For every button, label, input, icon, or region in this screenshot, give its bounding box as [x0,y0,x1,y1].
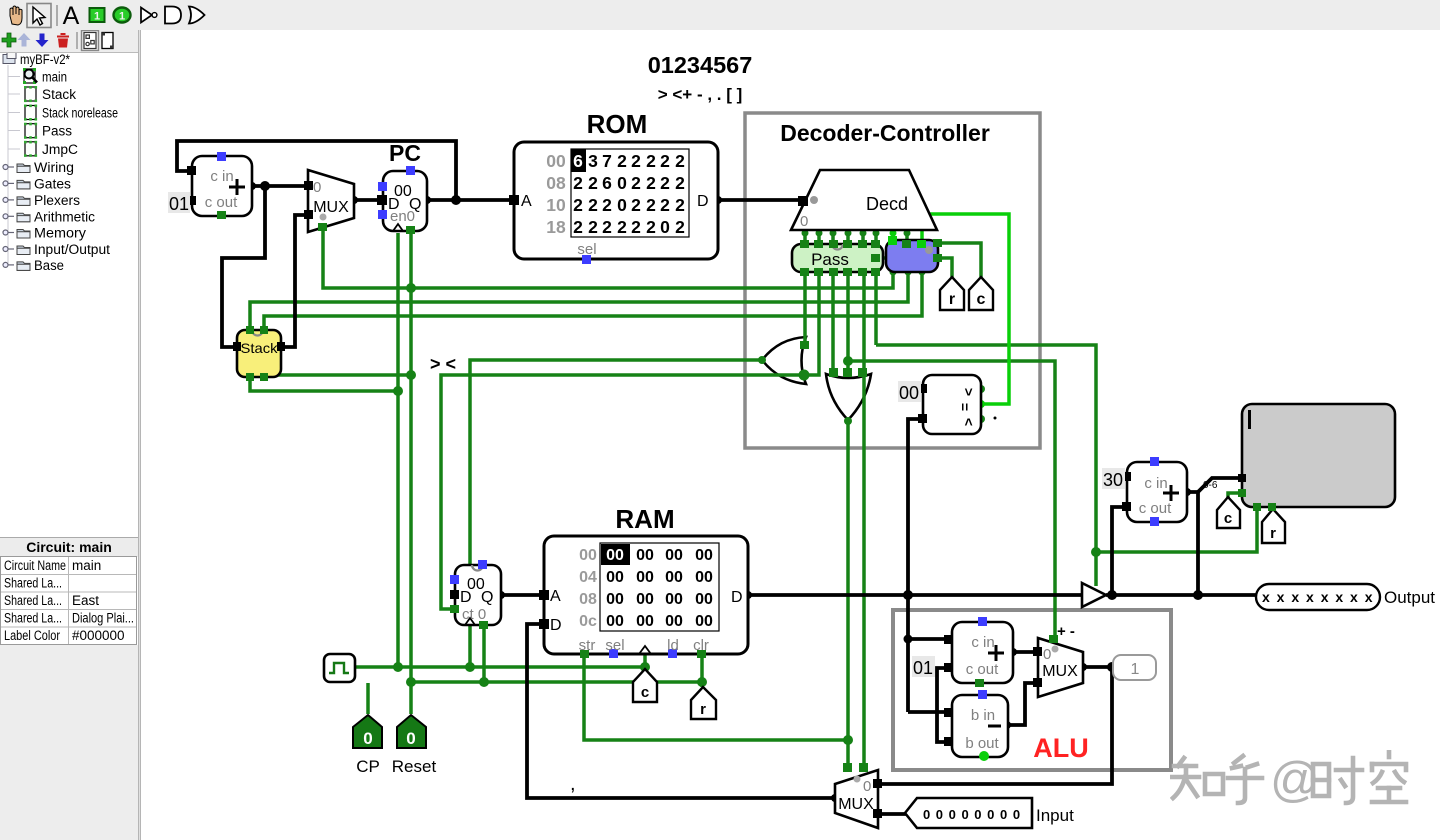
svg-text:Q: Q [409,196,421,213]
svg-text:00: 00 [546,151,566,171]
svg-text:Gates: Gates [34,176,71,191]
svg-text:1: 1 [94,11,100,23]
svg-text:2: 2 [588,217,598,237]
svg-text:,: , [570,773,576,795]
svg-text:0: 0 [313,179,321,196]
svg-text:0: 0 [1043,646,1051,663]
svg-text:00: 00 [606,613,624,630]
svg-text:Decd: Decd [866,194,908,214]
svg-text:2: 2 [631,151,641,171]
svg-text:c out: c out [966,661,999,678]
svg-text:0 0 0 0 0 0 0 0: 0 0 0 0 0 0 0 0 [923,807,1021,822]
svg-text:2: 2 [602,217,612,237]
svg-text:D: D [731,589,743,606]
svg-text:2: 2 [646,195,656,215]
svg-text:Plexers: Plexers [34,193,80,208]
svg-text:c: c [641,684,649,701]
svg-text:00: 00 [636,547,654,564]
svg-text:2: 2 [588,173,598,193]
svg-text:04: 04 [579,569,597,586]
svg-text:3: 3 [588,151,598,171]
svg-text:MUX: MUX [313,199,349,216]
svg-text:18: 18 [546,217,566,237]
svg-text:A: A [63,2,80,30]
svg-text:01: 01 [169,194,189,214]
svg-text:East: East [72,593,99,608]
svg-text:Pass: Pass [42,124,72,139]
svg-text:Label Color: Label Color [4,628,60,643]
svg-text:00: 00 [579,547,597,564]
svg-text:6: 6 [602,173,612,193]
svg-text:c in: c in [1144,475,1167,492]
svg-text:2: 2 [646,173,656,193]
svg-text:x x x x x x x x: x x x x x x x x [1262,589,1374,605]
svg-text:00: 00 [665,591,683,608]
svg-text:00: 00 [665,613,683,630]
svg-text:D: D [460,589,472,606]
svg-text:Wiring: Wiring [34,160,74,175]
svg-text:> <+ - , . [ ]: > <+ - , . [ ] [658,85,743,104]
svg-text:=: = [957,403,973,411]
svg-text:main: main [42,70,67,85]
svg-text:Reset: Reset [392,757,437,776]
svg-text:PC: PC [389,140,421,166]
svg-text:2: 2 [617,217,627,237]
svg-text:2: 2 [573,217,583,237]
svg-text:00: 00 [636,591,654,608]
svg-text:2: 2 [660,151,670,171]
svg-text:1: 1 [119,11,125,23]
svg-text:Stack: Stack [42,87,76,102]
svg-text:08: 08 [579,591,597,608]
svg-text:0c: 0c [579,613,597,630]
svg-text:0: 0 [617,173,627,193]
svg-text:Stack norelease: Stack norelease [42,106,118,121]
svg-text:JmpC: JmpC [42,142,78,157]
svg-text:0: 0 [660,217,670,237]
svg-text:01: 01 [913,658,933,678]
svg-text:Output: Output [1384,588,1435,607]
svg-text:2: 2 [588,195,598,215]
svg-text:00: 00 [695,547,713,564]
svg-text:c: c [977,291,986,308]
svg-text:D: D [550,617,562,634]
svg-text:00: 00 [665,547,683,564]
svg-text:D: D [697,193,709,210]
svg-text:2: 2 [573,173,583,193]
svg-text:D: D [388,196,400,213]
svg-text:2: 2 [631,195,641,215]
svg-text:r: r [1270,525,1276,542]
svg-text:2: 2 [675,173,685,193]
svg-text:#000000: #000000 [72,628,125,643]
svg-text:A: A [521,193,532,210]
svg-text:b in: b in [971,707,995,724]
svg-text:Base: Base [34,258,64,273]
svg-text:sel: sel [577,241,596,258]
svg-text:2: 2 [675,151,685,171]
svg-text:2: 2 [646,217,656,237]
svg-text:2: 2 [660,195,670,215]
svg-text:myBF-v2*: myBF-v2* [20,53,71,67]
svg-text:c: c [1224,510,1232,527]
svg-text:sel: sel [605,637,624,654]
svg-text:00: 00 [606,591,624,608]
svg-text:08: 08 [546,173,566,193]
svg-text:MUX: MUX [838,796,874,813]
svg-text:00: 00 [665,569,683,586]
svg-text:2: 2 [675,195,685,215]
svg-text:A: A [550,588,561,605]
svg-text:c in: c in [210,168,233,185]
svg-text:Input: Input [1036,806,1074,825]
svg-text:c out: c out [205,194,238,211]
svg-text:Dialog Plai...: Dialog Plai... [72,611,134,626]
svg-text:r: r [700,701,706,718]
svg-text:Input/Output: Input/Output [34,242,110,257]
svg-text:Circuit Name: Circuit Name [4,558,66,573]
svg-text:1: 1 [1131,661,1140,678]
svg-text:00: 00 [695,613,713,630]
svg-text:clr: clr [693,637,709,654]
svg-text:ld: ld [667,637,679,654]
svg-text:Stack: Stack [241,340,279,356]
svg-text:ct 0: ct 0 [462,606,486,623]
svg-text:2: 2 [660,173,670,193]
svg-text:0: 0 [863,778,871,795]
svg-text:ALU: ALU [1033,733,1089,763]
svg-text:<: < [961,418,977,426]
svg-text:2: 2 [617,151,627,171]
svg-text:str: str [579,637,596,654]
svg-text:0: 0 [363,729,372,748]
svg-text:0: 0 [406,729,415,748]
svg-text:c out: c out [1139,500,1172,517]
svg-text:0: 0 [617,195,627,215]
svg-text:CP: CP [356,757,380,776]
svg-text:2: 2 [602,195,612,215]
svg-text:2: 2 [675,217,685,237]
svg-text:2: 2 [631,173,641,193]
svg-text:6: 6 [573,151,583,171]
svg-text:c in: c in [971,634,994,651]
svg-text:7: 7 [602,151,612,171]
svg-text:Arithmetic: Arithmetic [34,209,95,224]
svg-text:Shared La...: Shared La... [4,593,62,608]
svg-text:2: 2 [646,151,656,171]
svg-text:2: 2 [631,217,641,237]
svg-text:>: > [961,388,977,396]
svg-text:0: 0 [800,213,808,230]
svg-text:00: 00 [636,613,654,630]
svg-text:Pass: Pass [811,250,849,269]
svg-text:Memory: Memory [34,226,86,241]
svg-text:main: main [72,558,101,573]
svg-text:10: 10 [546,195,566,215]
svg-text:b out: b out [965,735,999,752]
svg-text:MUX: MUX [1042,663,1078,680]
svg-text:Q: Q [481,589,493,606]
svg-text:2: 2 [573,195,583,215]
svg-text:00: 00 [899,383,919,403]
svg-text:Shared La...: Shared La... [4,611,62,626]
svg-text:00: 00 [606,547,624,564]
svg-text:00: 00 [695,569,713,586]
svg-text:+ -: + - [1057,623,1075,640]
svg-text:> <: > < [430,354,456,374]
svg-text:0-6: 0-6 [1203,480,1218,491]
svg-text:RAM: RAM [615,504,674,534]
svg-text:r: r [949,291,955,308]
svg-text:Decoder-Controller: Decoder-Controller [780,120,990,146]
svg-text:Shared La...: Shared La... [4,576,62,591]
svg-text:30: 30 [1103,470,1123,490]
svg-text:ROM: ROM [587,109,648,139]
svg-text:00: 00 [636,569,654,586]
svg-text:00: 00 [695,591,713,608]
svg-text:01234567: 01234567 [648,52,753,78]
svg-text:00: 00 [606,569,624,586]
